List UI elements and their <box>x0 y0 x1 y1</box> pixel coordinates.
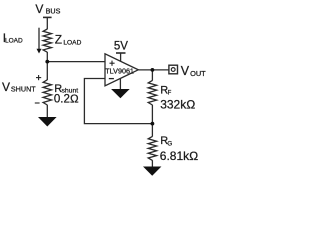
svg-text:BUS: BUS <box>46 6 61 15</box>
svg-text:0.2Ω: 0.2Ω <box>54 94 79 106</box>
svg-text:V: V <box>35 2 43 16</box>
svg-text:V: V <box>2 80 10 94</box>
svg-text:5V: 5V <box>114 40 128 52</box>
svg-text:LOAD: LOAD <box>63 39 81 46</box>
svg-text:LOAD: LOAD <box>5 37 23 44</box>
svg-text:6.81kΩ: 6.81kΩ <box>160 149 199 163</box>
svg-text:SHUNT: SHUNT <box>11 85 36 94</box>
svg-text:F: F <box>168 90 172 96</box>
svg-text:332kΩ: 332kΩ <box>160 98 195 112</box>
svg-text:Z: Z <box>55 33 62 47</box>
svg-text:V: V <box>181 64 190 78</box>
svg-text:G: G <box>167 140 172 147</box>
svg-text:OUT: OUT <box>190 69 206 78</box>
svg-text:TLV9061: TLV9061 <box>105 66 134 75</box>
